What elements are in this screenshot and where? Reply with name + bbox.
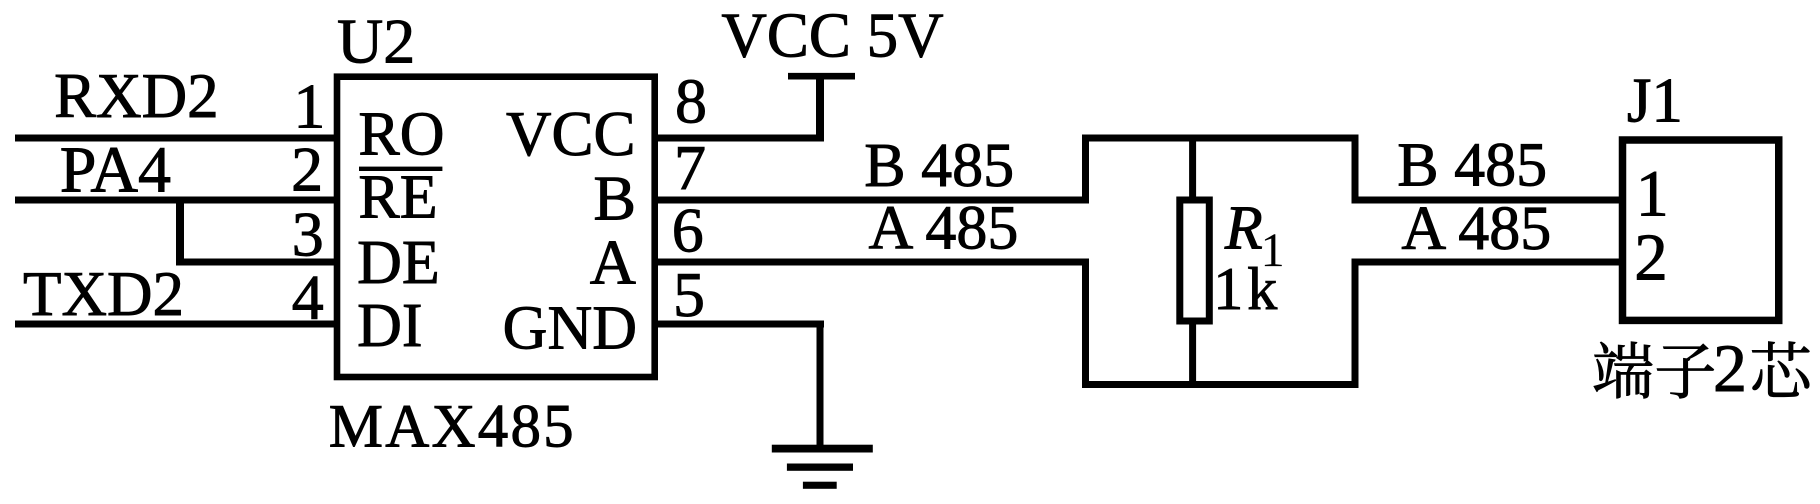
wire VCC drop xyxy=(816,76,824,138)
wire pin 5 to ground xyxy=(655,321,825,328)
resistor R1 body xyxy=(1180,200,1210,321)
wire pin 8 to VCC xyxy=(655,135,825,142)
wire ground drop xyxy=(817,324,824,449)
svg-text:RXD2: RXD2 xyxy=(54,61,219,131)
svg-text:A 485: A 485 xyxy=(1401,195,1551,263)
wire pin 7 B485 xyxy=(655,197,1090,204)
ground symbol xyxy=(772,445,873,489)
svg-text:4: 4 xyxy=(292,262,324,333)
svg-text:VCC 5V: VCC 5V xyxy=(721,1,943,71)
power VCC 5V bar symbol xyxy=(788,73,855,80)
wire B loop around resistor xyxy=(1086,138,1356,204)
svg-text:2: 2 xyxy=(1634,221,1668,295)
svg-text:B 485: B 485 xyxy=(864,132,1014,200)
svg-text:8: 8 xyxy=(675,66,707,137)
svg-text:VCC: VCC xyxy=(506,99,636,169)
svg-text:1k: 1k xyxy=(1213,256,1281,322)
wire B485 right xyxy=(1355,197,1626,204)
resistor R1 bottom lead xyxy=(1189,321,1196,385)
svg-text:A 485: A 485 xyxy=(869,195,1019,263)
svg-text:MAX485: MAX485 xyxy=(329,394,576,461)
svg-text:PA4: PA4 xyxy=(60,134,171,207)
pin 2 name RE with overbar xyxy=(358,164,442,232)
svg-text:U2: U2 xyxy=(337,6,415,77)
svg-text:RO: RO xyxy=(358,101,444,169)
svg-text:J1: J1 xyxy=(1627,65,1683,135)
svg-text:RE: RE xyxy=(358,164,437,232)
wire PA4 to pin 2 xyxy=(15,197,340,204)
wire PA4 branch vertical xyxy=(176,200,184,262)
wire TXD2 to pin 4 xyxy=(15,321,340,328)
svg-text:GND: GND xyxy=(503,294,637,362)
resistor R1 top lead xyxy=(1189,138,1196,200)
svg-text:B: B xyxy=(593,162,636,233)
svg-text:R: R xyxy=(1224,194,1263,262)
IC U2 body xyxy=(337,77,655,377)
svg-text:DI: DI xyxy=(357,292,422,360)
svg-text:2: 2 xyxy=(1713,330,1747,406)
svg-text:7: 7 xyxy=(674,132,706,203)
svg-text:DE: DE xyxy=(357,229,440,297)
wire A loop around resistor xyxy=(1086,259,1356,385)
svg-text:TXD2: TXD2 xyxy=(23,259,184,329)
svg-text:B 485: B 485 xyxy=(1397,131,1547,199)
svg-text:2: 2 xyxy=(291,134,323,205)
svg-text:6: 6 xyxy=(672,194,704,265)
wire pin 6 A485 xyxy=(655,259,1090,266)
wire A485 right xyxy=(1355,259,1626,266)
connector J1 body xyxy=(1623,140,1779,320)
resistor R1 designator xyxy=(1224,194,1282,266)
svg-text:3: 3 xyxy=(292,198,324,269)
wire branch to pin 3 xyxy=(176,259,340,266)
svg-text:5: 5 xyxy=(673,259,705,330)
svg-text:1: 1 xyxy=(293,70,325,141)
svg-text:1: 1 xyxy=(1636,157,1669,230)
wire RXD2 to pin 1 xyxy=(15,135,340,142)
connector J1 description 端子2芯 xyxy=(1594,330,1809,406)
svg-text:A: A xyxy=(590,226,636,297)
